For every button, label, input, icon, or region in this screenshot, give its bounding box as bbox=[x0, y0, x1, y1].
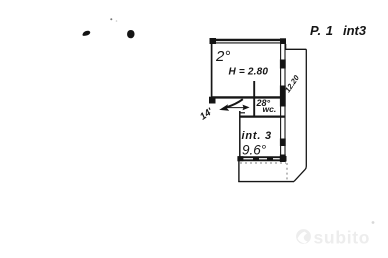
int3 bottom wall end block left bbox=[237, 156, 243, 161]
right wall dark segment 4 bbox=[280, 155, 286, 163]
right wall double line bbox=[281, 43, 285, 162]
faint speck bbox=[116, 20, 118, 22]
int3 bottom wall (window) bbox=[238, 157, 287, 160]
swoosh arrowhead bbox=[219, 104, 229, 111]
right wall dark segment 3 bbox=[280, 139, 286, 147]
balcony strip top edge bbox=[286, 48, 307, 50]
top-left corner block bbox=[210, 38, 217, 44]
svg-text:2°: 2° bbox=[215, 48, 230, 65]
label P. 1 int 3 bbox=[310, 23, 367, 38]
svg-text:int3: int3 bbox=[343, 23, 367, 38]
ink blob left bbox=[83, 31, 91, 36]
room 2deg: left wall bbox=[211, 39, 213, 103]
svg-text:12.20: 12.20 bbox=[283, 73, 301, 94]
svg-text:wc.: wc. bbox=[263, 104, 277, 114]
dimension arrowhead right bbox=[243, 105, 250, 111]
svg-text:H = 2.80: H = 2.80 bbox=[229, 67, 269, 78]
right wall dark segment 1 bbox=[280, 60, 286, 69]
svg-text:9.6°: 9.6° bbox=[242, 143, 267, 158]
dimension arrow line bbox=[224, 107, 248, 109]
int3 bottom wall mid tick 1 bbox=[253, 157, 259, 161]
terrace dotted right edge bbox=[286, 163, 288, 181]
balcony strip right edge bbox=[294, 49, 306, 181]
partition wall wc left bbox=[253, 81, 255, 117]
left wall bottom block bbox=[209, 97, 216, 104]
terrace left edge bbox=[238, 160, 240, 182]
int3 bottom wall end block right bbox=[280, 156, 287, 161]
int3 left wall stub tick bbox=[240, 112, 245, 114]
dotted line under int3 wall bbox=[240, 162, 286, 164]
right wall dark segment 2 bbox=[280, 86, 286, 107]
int3 left wall bbox=[239, 111, 241, 161]
swoosh arrow curve bbox=[227, 99, 243, 107]
wall jog to strip bbox=[285, 44, 287, 50]
svg-text:subito: subito bbox=[314, 228, 371, 248]
room 2deg: top wall bbox=[211, 40, 287, 43]
svg-text:14': 14' bbox=[198, 106, 215, 123]
svg-text:int. 3: int. 3 bbox=[242, 130, 272, 142]
speck right lower bbox=[372, 221, 375, 224]
terrace bottom edge bbox=[238, 181, 294, 183]
top-right corner block bbox=[280, 38, 286, 44]
wc bottom / int3 top wall bbox=[240, 115, 286, 117]
speck top center bbox=[110, 18, 112, 20]
svg-text:P. 1: P. 1 bbox=[310, 23, 333, 38]
int3 bottom wall mid tick 2 bbox=[267, 157, 273, 161]
room 2deg / wc: bottom wall bbox=[211, 96, 286, 98]
watermark logo circle bbox=[296, 229, 311, 244]
ink blob right bbox=[127, 30, 134, 38]
